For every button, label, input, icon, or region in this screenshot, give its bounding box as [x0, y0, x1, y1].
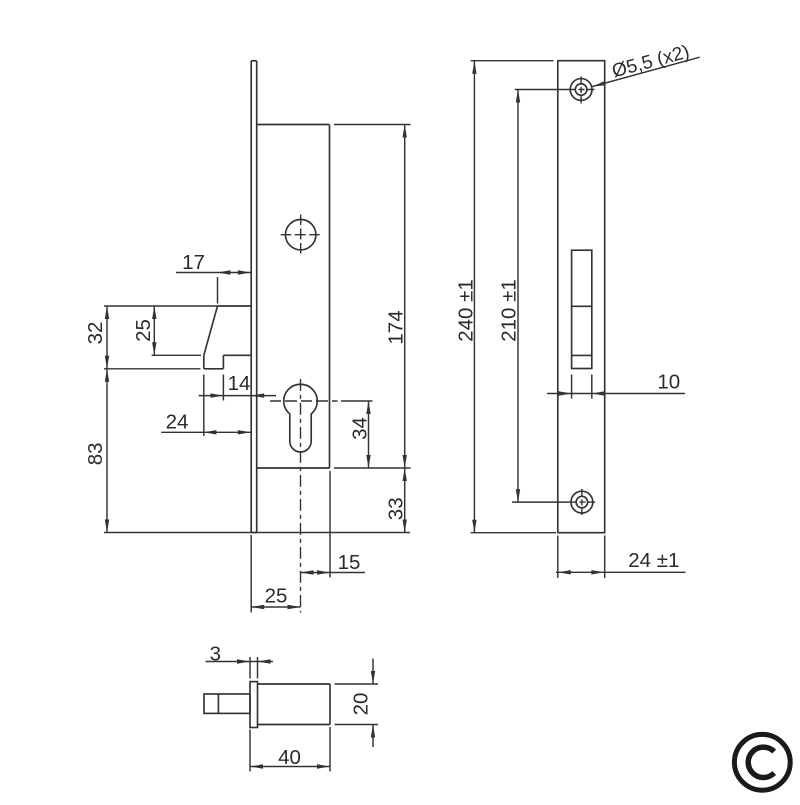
dimension 174 [334, 125, 411, 469]
dimension 14 [199, 372, 276, 401]
dimension 10 [547, 371, 685, 399]
dimension 83 [84, 369, 410, 533]
svg-text:210 ±1: 210 ±1 [498, 279, 521, 342]
svg-text:33: 33 [385, 497, 408, 520]
latch opening [572, 250, 592, 368]
svg-text:24: 24 [166, 411, 189, 434]
euro cylinder keyhole [284, 384, 318, 452]
svg-text:40: 40 [278, 746, 301, 769]
dimension 25 (backset) [251, 535, 300, 613]
svg-text:15: 15 [338, 551, 361, 574]
latch bolt (front view) [204, 306, 251, 369]
svg-text:25: 25 [132, 319, 155, 342]
svg-text:240 ±1: 240 ±1 [454, 279, 477, 342]
dimension 240 ±1 [454, 61, 556, 533]
dimension 33 [385, 468, 408, 533]
svg-text:14: 14 [228, 372, 251, 395]
faceplate (side view) [558, 61, 605, 533]
dimension 24 [161, 375, 251, 437]
keyhole horizontal centerline [270, 400, 338, 402]
spindle hole [281, 215, 320, 254]
lock body (front view) [257, 125, 330, 469]
dimension 25 (latch height) [132, 306, 201, 355]
dimension 20 [335, 659, 379, 748]
dimension 210 ±1 [498, 90, 570, 503]
dimension 15 [301, 471, 366, 578]
svg-text:25: 25 [265, 585, 288, 608]
lock case (top view) [258, 684, 331, 725]
svg-text:10: 10 [657, 371, 680, 394]
svg-text:20: 20 [350, 693, 373, 716]
top screw hole [568, 77, 595, 104]
dimension 32 [84, 306, 218, 369]
dimension 17 [176, 251, 251, 304]
keyhole vertical centerline [300, 379, 302, 613]
dimension 24 ±1 [556, 536, 686, 579]
dimension 40 [250, 727, 330, 772]
latch pin (top view) [204, 694, 250, 713]
svg-text:174: 174 [385, 310, 408, 344]
svg-text:83: 83 [84, 442, 107, 465]
bottom screw hole [569, 489, 595, 515]
dimension 3 [206, 643, 274, 679]
dimension 34 [341, 401, 373, 468]
svg-text:17: 17 [182, 251, 205, 274]
svg-text:3: 3 [210, 643, 221, 666]
leader Ø5,5 (x2) [593, 42, 700, 87]
faceplate strip (front view) [251, 61, 257, 533]
copyright symbol [734, 734, 790, 790]
svg-text:34: 34 [349, 417, 372, 440]
svg-text:24 ±1: 24 ±1 [628, 549, 679, 572]
svg-text:32: 32 [84, 322, 107, 345]
faceplate (top view) [250, 682, 258, 728]
